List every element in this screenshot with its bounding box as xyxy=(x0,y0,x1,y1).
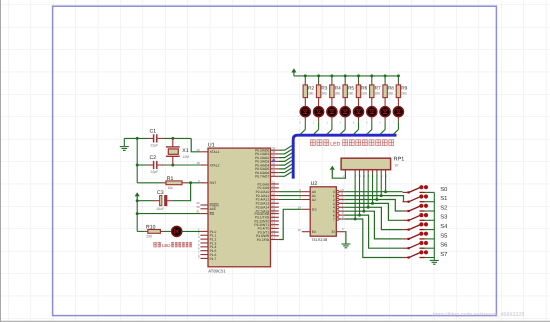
led D6 xyxy=(354,107,364,117)
pin P1.1 xyxy=(200,234,208,236)
svg-text:X1: X1 xyxy=(182,148,188,154)
node mesh0 xyxy=(384,190,387,193)
pin ALE xyxy=(200,208,208,210)
svg-text:S6: S6 xyxy=(440,242,447,249)
pin EA xyxy=(200,213,208,215)
decoder U2 body xyxy=(310,187,336,236)
respack RP1 body xyxy=(341,158,391,170)
svg-text:ALE: ALE xyxy=(210,207,217,211)
pin U2 GS xyxy=(302,208,310,210)
svg-text:280: 280 xyxy=(401,92,407,96)
wire led6 to bus xyxy=(384,117,386,122)
resistor R7 xyxy=(371,76,373,82)
svg-text:31: 31 xyxy=(196,210,200,214)
bus tap P0.7 xyxy=(279,172,292,177)
wire rp column 0 xyxy=(385,174,387,192)
svg-text:280: 280 xyxy=(361,92,367,96)
pin P0.2/AD2 xyxy=(271,157,279,159)
led D7 xyxy=(367,107,377,117)
node mesh5 xyxy=(362,210,365,213)
node rail3 xyxy=(344,74,347,77)
node J2 xyxy=(171,137,174,140)
pin P1.5 xyxy=(200,250,208,252)
svg-text:P3.7/RD: P3.7/RD xyxy=(257,238,270,242)
svg-text:7: 7 xyxy=(333,217,335,221)
switch S3 xyxy=(403,219,408,221)
wire XTAL1 xyxy=(191,138,200,151)
svg-text:EI: EI xyxy=(332,230,335,234)
svg-text:RP1: RP1 xyxy=(394,157,405,163)
pin P0.0/AD0 xyxy=(271,149,279,151)
pin P3.2/INT0 xyxy=(271,220,279,222)
svg-text:R3: R3 xyxy=(321,85,327,90)
respack pin1 xyxy=(344,170,346,174)
led D3 xyxy=(314,107,324,117)
svg-text:200: 200 xyxy=(146,234,152,238)
svg-text:R8: R8 xyxy=(388,85,394,90)
wire A2 from P2 xyxy=(279,199,302,201)
pin P1.0 xyxy=(200,230,208,232)
svg-text:S7: S7 xyxy=(440,251,447,258)
bus tap P0.2 xyxy=(279,153,292,158)
switch S7 xyxy=(403,257,408,259)
resistor R1 xyxy=(137,182,161,184)
svg-text:P1.7: P1.7 xyxy=(210,257,217,261)
wire C1 to X1 node xyxy=(164,137,191,139)
switch S5 xyxy=(403,238,408,240)
svg-text:10k: 10k xyxy=(168,186,174,190)
node mesh2 xyxy=(375,198,378,201)
pin XTAL1 xyxy=(200,151,208,153)
wire A1 from P2 xyxy=(279,195,302,197)
svg-text:15: 15 xyxy=(298,228,302,232)
wire rp column 7 xyxy=(354,174,356,219)
svg-text:S4: S4 xyxy=(440,223,448,230)
svg-text:17: 17 xyxy=(272,236,276,240)
resistor R3 xyxy=(318,76,320,82)
pin P2.4/A12 xyxy=(271,198,279,200)
pin U2 A1 xyxy=(302,195,310,197)
pin P2.5/A13 xyxy=(271,202,279,204)
wire S5 to rail xyxy=(425,238,435,240)
wire net1 xyxy=(344,196,403,202)
svg-text:A2: A2 xyxy=(312,198,316,202)
switch S1 xyxy=(403,201,408,203)
wire switch rail xyxy=(433,192,435,259)
ground GND1 xyxy=(123,138,125,146)
pin XTAL2 xyxy=(200,164,208,166)
wire led5 to bus xyxy=(371,117,373,122)
resistor R8 xyxy=(384,76,386,82)
svg-text:22pF: 22pF xyxy=(151,170,159,174)
svg-text:12M: 12M xyxy=(182,155,189,159)
node mesh6 xyxy=(358,214,361,217)
svg-text:XTAL1: XTAL1 xyxy=(210,150,220,154)
wire rp column 6 xyxy=(359,174,361,216)
pin P3.5/T1 xyxy=(271,231,279,233)
wire C2 to XTAL2 xyxy=(164,164,200,166)
svg-text:1K: 1K xyxy=(394,164,399,168)
bus P0 xyxy=(293,135,396,178)
wire S1 to rail xyxy=(425,201,435,203)
svg-text:280: 280 xyxy=(335,92,341,96)
pin P2.1/A9 xyxy=(271,187,279,189)
wire EI to ground xyxy=(344,232,346,244)
pin U2 A2 xyxy=(302,199,310,201)
node rail4 xyxy=(357,74,360,77)
svg-text:19: 19 xyxy=(196,148,200,152)
pin U2 in4 xyxy=(337,206,340,209)
svg-text:10uF: 10uF xyxy=(156,207,164,211)
svg-text:C2: C2 xyxy=(150,155,157,161)
wire rp column 1 xyxy=(380,174,382,196)
switch S6 xyxy=(403,247,408,249)
wire S6 to rail xyxy=(425,247,435,249)
pin U2 EI xyxy=(336,231,344,233)
node mesh7 xyxy=(354,218,357,221)
wire rp column 4 xyxy=(367,174,369,208)
pin U2 in3 xyxy=(337,202,340,205)
svg-text:S1: S1 xyxy=(440,195,447,202)
svg-text:R4: R4 xyxy=(335,85,341,90)
label text main-LED note xyxy=(154,242,157,247)
resistor R9 xyxy=(397,76,399,82)
pin U2 in6 xyxy=(337,214,340,217)
node J3 xyxy=(136,164,139,167)
node mesh1 xyxy=(380,194,383,197)
pin P3.6/WR xyxy=(271,235,279,237)
wire A0 from P2 xyxy=(279,191,302,193)
capacitor C1 xyxy=(147,137,153,139)
power VCC1 xyxy=(135,192,140,196)
svg-text:U2: U2 xyxy=(311,181,318,187)
wire net0 xyxy=(344,191,402,193)
respack pin2 xyxy=(354,170,356,174)
svg-text:S0: S0 xyxy=(440,186,447,193)
label text interrupt-LED note xyxy=(310,140,315,146)
pin P2.3/A11 xyxy=(271,195,279,197)
pin U2 in7 xyxy=(337,218,340,221)
screenshot edge lines xyxy=(0,0,2,322)
wire EA xyxy=(137,213,200,215)
wire led2 to bus xyxy=(331,117,333,122)
pin U2 in5 xyxy=(337,210,340,213)
node J7 xyxy=(136,212,139,215)
svg-text:C1: C1 xyxy=(150,129,157,135)
pin PSEN xyxy=(200,204,208,206)
resistor R4 xyxy=(331,76,333,82)
svg-text:R5: R5 xyxy=(348,85,354,90)
svg-text:U1: U1 xyxy=(208,142,215,148)
svg-text:GS: GS xyxy=(312,208,318,212)
svg-text:22pF: 22pF xyxy=(151,143,159,147)
bus tap P0.0 xyxy=(279,146,292,151)
pin P0.6/AD6 xyxy=(271,172,279,174)
resistor R2 xyxy=(304,76,306,82)
pin U2 in1 xyxy=(337,194,340,197)
pin U2 in0 xyxy=(337,190,340,193)
node J6 xyxy=(136,199,139,202)
svg-text:R10: R10 xyxy=(146,224,156,230)
pin P0.4/AD4 xyxy=(271,164,279,166)
node J4 xyxy=(171,164,174,167)
power VCC3 xyxy=(330,166,335,170)
pin P3.0/RXD xyxy=(271,213,279,215)
bus tap P0.5 xyxy=(279,164,292,169)
svg-text:C3: C3 xyxy=(157,190,164,196)
led D9 xyxy=(393,107,403,117)
svg-text:32: 32 xyxy=(272,173,276,177)
wire GS to P3.7 xyxy=(279,209,302,239)
svg-text:280: 280 xyxy=(308,92,314,96)
node J1 xyxy=(136,137,139,140)
node rail5 xyxy=(370,74,373,77)
pin P1.4 xyxy=(200,246,208,248)
crystal X1 xyxy=(172,138,174,147)
svg-text:280: 280 xyxy=(375,92,381,96)
svg-text:S3: S3 xyxy=(440,214,447,221)
wire rp column 3 xyxy=(372,174,374,204)
pin U2 A0 xyxy=(302,191,310,193)
wire led0 to bus xyxy=(304,117,306,122)
wire net3 xyxy=(344,203,402,220)
svg-text:E0: E0 xyxy=(312,230,316,234)
pin P2.6/A14 xyxy=(271,206,279,208)
pin P0.3/AD3 xyxy=(271,160,279,162)
switch S2 xyxy=(403,210,408,212)
svg-text:280: 280 xyxy=(348,92,354,96)
svg-text:280: 280 xyxy=(388,92,394,96)
led D8 xyxy=(380,107,390,117)
pin P0.5/AD5 xyxy=(271,168,279,170)
bus tap P0.3 xyxy=(279,157,292,162)
svg-text:RST: RST xyxy=(210,181,217,185)
respack pin4 xyxy=(363,170,365,174)
wire net2 xyxy=(344,200,402,212)
node rail6 xyxy=(384,74,387,77)
capacitor C3 xyxy=(167,200,171,202)
respack pin6 xyxy=(372,170,374,174)
pin P0.7/AD7 xyxy=(271,175,279,177)
switch S0 xyxy=(403,191,408,193)
svg-text:LED: LED xyxy=(162,243,171,248)
pin P1.2 xyxy=(200,238,208,240)
pin P1.3 xyxy=(200,242,208,244)
wire S2 to rail xyxy=(425,210,435,212)
resistor R10 xyxy=(137,230,145,232)
wire S0 to rail xyxy=(425,191,435,193)
pin U2 E0 xyxy=(302,231,310,233)
mcu U1 body xyxy=(208,148,271,267)
bus tap P0.4 xyxy=(279,161,292,166)
wire S3 to rail xyxy=(425,219,435,221)
wire left column gnd xyxy=(136,138,138,182)
pin P3.3/INT1 xyxy=(271,224,279,226)
respack pin9 xyxy=(385,170,387,174)
node mesh4 xyxy=(367,206,370,209)
respack pin8 xyxy=(380,170,382,174)
svg-text:S5: S5 xyxy=(440,232,447,239)
pin P1.6 xyxy=(200,254,208,256)
wire rp column 5 xyxy=(363,174,365,212)
node rail0 xyxy=(304,74,307,77)
svg-text:R9: R9 xyxy=(401,85,407,90)
node rail7 xyxy=(397,74,400,77)
wire gnd to C1 xyxy=(124,137,147,139)
switch S4 xyxy=(403,229,408,231)
led D4 xyxy=(327,107,337,117)
wire net5 xyxy=(344,211,402,239)
LED D1 xyxy=(171,230,172,232)
led D2 xyxy=(300,107,310,117)
pin U2 in2 xyxy=(337,198,340,201)
respack pin3 xyxy=(359,170,361,174)
bus tap P0.1 xyxy=(279,149,292,154)
wire RST branch down xyxy=(171,183,190,201)
svg-text:280: 280 xyxy=(321,92,327,96)
pin P2.7/A15 xyxy=(271,210,279,212)
svg-text:R6: R6 xyxy=(361,85,367,90)
svg-text:74LS148: 74LS148 xyxy=(311,237,328,242)
svg-text:30: 30 xyxy=(196,205,200,209)
bus tap P0.6 xyxy=(279,168,292,173)
svg-text:XTAL2: XTAL2 xyxy=(210,163,220,167)
ground GND2 xyxy=(341,243,350,245)
svg-text:htips;//blog.csdn.net/weixin_4: htips;//blog.csdn.net/weixin_46893325 xyxy=(433,312,524,318)
node rail1 xyxy=(317,74,320,77)
wire rp column 2 xyxy=(376,174,378,200)
wire net6 xyxy=(344,215,402,248)
power VCC2 xyxy=(291,68,296,72)
node rail2 xyxy=(330,74,333,77)
origin marker blue dot xyxy=(272,159,275,162)
svg-text:AT89C51: AT89C51 xyxy=(208,269,226,274)
resistor R6 xyxy=(358,76,360,82)
wire S4 to rail xyxy=(425,229,435,231)
svg-text:LED: LED xyxy=(330,141,340,147)
svg-text:R2: R2 xyxy=(308,85,314,90)
sheet border frame xyxy=(53,6,497,315)
wire led rail xyxy=(294,75,399,77)
wire led4 to bus xyxy=(358,117,360,122)
pin P3.1/TXD xyxy=(271,216,279,218)
pin P1.7 xyxy=(200,257,208,259)
respack pin7 xyxy=(376,170,378,174)
pin P3.7/RD xyxy=(271,239,279,241)
wire S7 to rail xyxy=(425,257,435,259)
resistor R5 xyxy=(344,76,346,82)
pin P2.0/A8 xyxy=(271,183,279,185)
svg-text:18: 18 xyxy=(196,161,200,165)
pin P2.2/A10 xyxy=(271,191,279,193)
pin RST xyxy=(200,182,208,184)
wire led3 to bus xyxy=(344,117,346,122)
svg-text:S2: S2 xyxy=(440,204,447,211)
pin P3.4/T0 xyxy=(271,227,279,229)
capacitor C2 xyxy=(137,164,147,166)
wire vcc column xyxy=(136,201,138,232)
respack pin5 xyxy=(367,170,369,174)
wire net4 xyxy=(344,207,402,229)
wire led1 to bus xyxy=(318,117,320,122)
node J5 xyxy=(189,181,192,184)
pin P0.1/AD1 xyxy=(271,153,279,155)
wire net7 xyxy=(344,219,402,258)
node mesh3 xyxy=(371,202,374,205)
svg-text:R1: R1 xyxy=(167,176,174,182)
led D5 xyxy=(340,107,350,117)
wire led7 to bus xyxy=(397,117,399,122)
svg-text:P0.7/AD7: P0.7/AD7 xyxy=(255,175,269,179)
svg-text:R7: R7 xyxy=(375,85,381,90)
ground GND3 xyxy=(430,259,439,261)
